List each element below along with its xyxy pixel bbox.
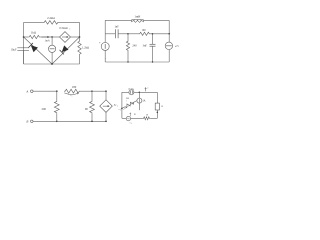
svg-text:1.2kΩ: 1.2kΩ [82,46,89,50]
svg-text:4.5: 4.5 [175,45,179,48]
svg-text:1nF: 1nF [114,25,119,28]
svg-text:200: 200 [42,107,47,111]
wire [52,36,59,38]
svg-text:2.2kΩ: 2.2kΩ [47,16,55,20]
node [127,61,128,62]
wire [33,90,57,92]
node [139,92,141,94]
wire [168,34,170,42]
wire [41,36,53,38]
svg-text:10μF: 10μF [11,48,17,51]
resistor R12 diagonal [122,101,137,109]
wire bypass [105,19,131,21]
wire [71,36,80,38]
capacitor C1 10uF [17,47,29,49]
node [91,90,93,92]
resistor R6 240 [126,40,129,52]
svg-text:1A: 1A [142,99,145,102]
wire diagonal [52,37,80,64]
resistor parallel [132,20,144,22]
resistor R1 2.2k [43,21,59,25]
wire [23,47,25,64]
node small [134,114,135,115]
node [91,120,93,122]
wire bypass [144,19,170,21]
node [152,33,154,35]
wire [134,91,157,93]
node [127,33,129,35]
wire [131,117,143,119]
terminal B [31,120,34,123]
svg-text:1mH: 1mH [135,14,141,18]
current arrow ix [42,36,50,38]
current source I3 [137,98,142,103]
svg-text:A: A [25,89,28,93]
wire [128,33,139,35]
svg-text:2: 2 [120,110,121,112]
svg-text:0.5A: 0.5A [129,88,134,91]
wire [168,20,170,33]
resistor R11 [143,117,150,120]
arrow in diamond [62,36,68,38]
node [168,33,170,35]
wire diagonal [24,37,52,64]
resistor R10 box [155,103,159,110]
arrow i2 [123,103,133,110]
wire [122,91,129,93]
resistor R9 90 [91,91,93,101]
dependent source U2 diamond [100,100,113,113]
wire [57,120,106,122]
wire [105,33,115,35]
node [79,36,81,38]
wire [104,50,106,62]
stub arrow [130,113,131,117]
capacitor C3 3nF [150,43,156,45]
wire [104,20,106,33]
wire [24,63,80,65]
wire [92,90,106,92]
node [51,36,53,38]
wire [122,117,126,119]
wire [152,34,154,45]
svg-text:0.5kΩi: 0.5kΩi [59,26,67,30]
voltage source V2 [129,90,134,95]
node [105,90,107,92]
wire [79,22,81,40]
node [51,63,53,65]
svg-text:1mA: 1mA [45,40,50,43]
current source I2 [165,42,172,49]
node [23,36,25,38]
capacitor C2 1nF [114,29,116,38]
svg-text:3nF: 3nF [143,45,148,48]
diode D2 [62,45,69,52]
wire [79,56,81,65]
wire [153,33,170,35]
wire left edge [121,92,123,118]
wire [33,120,57,122]
wire [127,52,129,63]
wire bottom [150,117,157,119]
current source I1 [49,45,56,52]
svg-text:1kΩ: 1kΩ [31,31,37,35]
node [56,120,58,122]
wire [105,91,107,100]
resistor R7 200 [56,91,58,101]
svg-text:180: 180 [72,85,77,89]
voltage source V1 [101,42,109,50]
wire mid branch [138,92,140,98]
node [56,90,58,92]
wire [138,103,140,110]
wire [24,36,28,38]
resistor R5 100 [139,32,151,35]
arrow i [145,88,147,92]
svg-text:B: B [26,120,28,124]
resistor R8 180 [64,89,81,93]
resistor R2 1k [28,35,41,38]
dependent source U1 diamond [60,32,71,43]
node [157,112,159,114]
wire [24,21,43,23]
wire [51,52,53,64]
inductor L1 1mH [132,19,144,20]
wire [104,34,106,43]
node [152,61,153,62]
wire [51,37,53,45]
wire bottom [105,61,169,63]
wire [23,22,25,47]
wire [168,50,170,63]
svg-text:90: 90 [85,107,89,111]
resistor R4 1.2k [78,40,81,56]
wire [105,112,107,121]
terminal A [31,90,34,93]
svg-text:x: x [117,106,118,108]
wire [59,21,80,23]
arrow in diamond2 [103,105,109,107]
wire [23,50,25,64]
source V3 sine [126,116,130,120]
wire [152,46,154,62]
node [121,108,123,110]
wire [81,90,93,92]
wire [156,92,158,103]
svg-text:240: 240 [132,45,137,48]
wire [156,110,158,118]
arc vx [64,93,78,95]
wire [118,33,128,35]
node [105,120,107,122]
wire [151,33,153,35]
wire [127,34,129,40]
diode D1 [31,45,38,52]
svg-text:100: 100 [142,29,147,32]
